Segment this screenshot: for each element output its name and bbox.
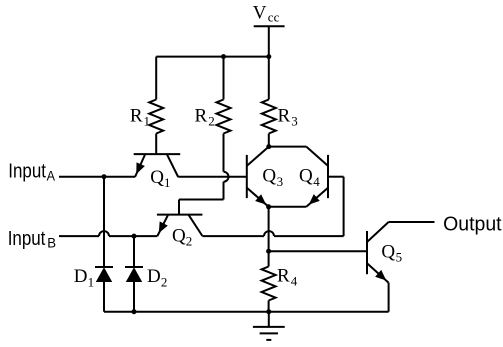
Vcc power rail bar <box>254 25 285 27</box>
wire Input A line <box>59 176 135 178</box>
svg-text:D: D <box>147 266 161 287</box>
wire Q2 base to R2 <box>179 199 224 201</box>
wire Input B line left of hop <box>59 235 99 237</box>
wire Q2 collector run <box>202 235 264 237</box>
svg-text:Q: Q <box>262 166 276 187</box>
wire Q3/Q4 common collector segment <box>269 146 307 148</box>
svg-text:R: R <box>277 266 290 287</box>
svg-text:V: V <box>253 3 267 24</box>
node InputB / D2 <box>132 234 137 239</box>
node bus/Vcc/R3 <box>266 54 271 59</box>
resistor R3 <box>262 57 298 147</box>
node bus/ground <box>266 309 271 314</box>
transistor Q2 <box>157 215 203 249</box>
node Q5 base tap <box>266 249 271 254</box>
wire Q2 base lead up <box>178 200 180 215</box>
svg-text:cc: cc <box>268 10 280 25</box>
resistor R2 <box>195 57 231 172</box>
svg-text:R: R <box>195 106 208 127</box>
wire hop: Q2-collector wire over emitter-node wire <box>264 231 274 236</box>
Vcc label <box>253 3 280 25</box>
svg-text:3: 3 <box>277 174 284 189</box>
svg-text:D: D <box>74 266 88 287</box>
svg-text:5: 5 <box>396 249 403 264</box>
svg-text:4: 4 <box>313 174 320 189</box>
wire Q5 collector to output <box>389 221 435 223</box>
wire hop: InputB line over D1 drop <box>99 231 109 236</box>
transistor Q5 <box>367 222 402 283</box>
wire Q4 base lead <box>328 176 344 178</box>
node Q3/Q4 emitters <box>266 204 271 209</box>
svg-text:B: B <box>47 236 56 251</box>
node bus/D2 <box>132 309 137 314</box>
svg-text:4: 4 <box>291 274 298 289</box>
svg-text:R: R <box>130 106 143 127</box>
wire Vcc stem <box>268 26 270 56</box>
svg-text:2: 2 <box>161 274 168 289</box>
svg-text:A: A <box>47 169 55 184</box>
svg-text:Q: Q <box>150 167 164 188</box>
diode D1 <box>74 177 113 312</box>
InputA label <box>8 160 55 183</box>
svg-text:Q: Q <box>172 225 186 246</box>
node R3 / Q3 Q4 collectors <box>266 144 271 149</box>
wire to Q5 base <box>269 250 367 252</box>
svg-text:2: 2 <box>186 233 193 248</box>
wire R2 to corner <box>223 182 225 200</box>
wire hop: R2 wire over Q1-collector wire <box>224 172 229 182</box>
svg-text:2: 2 <box>208 114 215 129</box>
wire Q4 base drop <box>343 177 345 236</box>
wire top supply bus <box>156 56 269 58</box>
wire bottom ground bus <box>104 311 389 313</box>
transistor Q1 <box>134 154 181 190</box>
svg-text:Input: Input <box>8 228 46 250</box>
wire Q2 collector run to Q4 base drop <box>274 235 344 237</box>
svg-text:Output: Output <box>443 214 502 236</box>
resistor R4 <box>262 266 298 312</box>
transistor Q4 <box>299 147 328 207</box>
svg-text:R: R <box>278 106 291 127</box>
svg-text:1: 1 <box>144 114 151 129</box>
transistor Q3 <box>247 147 283 207</box>
InputB label <box>8 228 56 251</box>
resistor R1 <box>130 57 163 155</box>
svg-text:1: 1 <box>164 175 171 190</box>
diode D2 <box>125 236 167 312</box>
wire Q5 emitter drop <box>388 283 390 312</box>
svg-text:Q: Q <box>381 241 395 262</box>
svg-text:3: 3 <box>291 114 298 129</box>
wire emitter node down to R4 <box>268 207 270 267</box>
svg-text:Input: Input <box>8 160 46 182</box>
wire Q1 collector to Q3 base <box>178 176 247 178</box>
svg-text:1: 1 <box>88 274 95 289</box>
node InputA / D1 <box>102 174 107 179</box>
wire Q3/Q4 common emitter segment <box>269 206 307 208</box>
ground <box>253 312 285 340</box>
node bus/R2 <box>221 54 226 59</box>
wire Input B line right of hop <box>109 235 157 237</box>
svg-text:Q: Q <box>299 166 313 187</box>
